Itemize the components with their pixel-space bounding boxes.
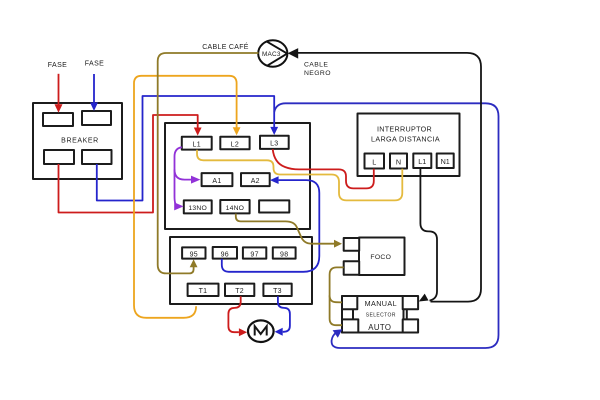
svg-text:14NO: 14NO bbox=[226, 205, 245, 212]
contactor aux contact (unlabeled) bbox=[259, 200, 289, 212]
svg-text:SELECTOR: SELECTOR bbox=[366, 313, 396, 319]
overload terminal T3 bbox=[263, 284, 291, 296]
svg-text:FOCO: FOCO bbox=[370, 254, 391, 261]
breaker terminal top-right bbox=[82, 111, 111, 125]
svg-text:L1: L1 bbox=[418, 157, 426, 166]
svg-text:BREAKER: BREAKER bbox=[61, 138, 99, 145]
svg-text:97: 97 bbox=[250, 251, 258, 258]
svg-text:CABLE: CABLE bbox=[304, 62, 328, 69]
wire red contactor L3 to interruptor L bbox=[273, 149, 374, 188]
wire cafe MAC3 to 95 bbox=[158, 53, 259, 273]
wire orange FASE line to L2 and T1 bbox=[134, 76, 237, 318]
overload terminal 96 bbox=[213, 247, 237, 259]
breaker terminal top-left bbox=[43, 113, 73, 126]
svg-text:MAC3: MAC3 bbox=[262, 51, 281, 58]
svg-text:T3: T3 bbox=[273, 288, 282, 295]
svg-text:N1: N1 bbox=[441, 157, 450, 166]
svg-text:NEGRO: NEGRO bbox=[304, 70, 331, 77]
selector contact link right bbox=[406, 309, 408, 320]
breaker terminal bottom-right bbox=[82, 150, 112, 164]
svg-text:T1: T1 bbox=[199, 288, 208, 295]
svg-text:L: L bbox=[372, 157, 376, 166]
svg-text:95: 95 bbox=[190, 251, 198, 258]
overload terminal T2 bbox=[225, 284, 254, 296]
wire red breaker to contactor L1 bbox=[59, 115, 198, 213]
wire cafe 14NO to FOCO bbox=[236, 214, 334, 244]
svg-text:98: 98 bbox=[280, 251, 288, 258]
interruptor terminal L1 bbox=[413, 154, 431, 169]
wire blue T3 to motor bbox=[278, 296, 290, 332]
svg-text:L1: L1 bbox=[193, 142, 201, 149]
svg-text:FASE: FASE bbox=[85, 61, 105, 68]
breaker BREAKER box bbox=[33, 103, 122, 179]
overload relay F1 box bbox=[170, 237, 312, 304]
wire yellow contactor L1 to interruptor N bbox=[197, 150, 402, 201]
contactor aux contact 13NO bbox=[184, 200, 212, 213]
FOCO terminal (bottom) bbox=[344, 261, 360, 274]
selector terminal top-left bbox=[342, 296, 357, 309]
wire black CABLE NEGRO to MAC3 and selector MANUAL bbox=[298, 53, 482, 302]
selector contact link left bbox=[352, 309, 354, 320]
contactor coil terminal A2 bbox=[241, 173, 270, 186]
wire red T2 to motor bbox=[228, 296, 240, 332]
selector terminal bottom-left bbox=[342, 319, 358, 332]
wire navy branch to AUTO terminal bbox=[274, 103, 498, 348]
selector terminal bottom-right bbox=[403, 319, 418, 332]
svg-text:A2: A2 bbox=[251, 178, 260, 185]
motor M1 bbox=[248, 320, 274, 342]
FOCO terminal (top) bbox=[344, 238, 360, 251]
FOCO lamp box bbox=[359, 238, 405, 276]
interruptor terminal L bbox=[365, 154, 385, 169]
wire cafe FOCO to selector terminals bbox=[330, 267, 344, 325]
pump MAC3 bbox=[258, 40, 287, 66]
svg-text:L2: L2 bbox=[231, 142, 239, 149]
contactor K1 box bbox=[165, 123, 310, 229]
contactor terminal L1 bbox=[182, 137, 212, 150]
selector MANUAL/AUTO box bbox=[342, 296, 404, 333]
wire blue breaker to contactor L3 bbox=[97, 96, 274, 201]
overload terminal T1 bbox=[188, 284, 219, 296]
wire purple L1 to A1 and 13NO bbox=[175, 147, 192, 206]
interruptor terminal N bbox=[390, 154, 407, 169]
contactor terminal L3 bbox=[260, 136, 289, 149]
wire black interruptor L1 to selector MANUAL terminal bbox=[420, 169, 437, 301]
contactor terminal L2 bbox=[220, 137, 249, 149]
interruptor terminal N1 bbox=[437, 154, 454, 169]
wire FASE blue drop into breaker bbox=[93, 74, 95, 103]
svg-text:MANUAL: MANUAL bbox=[365, 299, 397, 308]
overload terminal 98 bbox=[273, 247, 296, 258]
selector terminal top-right bbox=[403, 296, 418, 309]
wire blue 96 to A2 bbox=[222, 180, 319, 272]
wire FASE red drop into breaker bbox=[58, 74, 60, 105]
svg-text:96: 96 bbox=[221, 251, 229, 258]
svg-text:T2: T2 bbox=[235, 288, 244, 295]
overload terminal 97 bbox=[243, 247, 266, 258]
interruptor larga distancia box bbox=[358, 114, 460, 177]
svg-text:L3: L3 bbox=[270, 141, 278, 148]
contactor coil terminal A1 bbox=[202, 173, 233, 186]
svg-text:LARGA DISTANCIA: LARGA DISTANCIA bbox=[371, 134, 440, 143]
contactor aux contact 14NO bbox=[220, 200, 249, 213]
svg-text:A1: A1 bbox=[212, 178, 221, 185]
svg-text:INTERRUPTOR: INTERRUPTOR bbox=[377, 124, 432, 133]
breaker terminal bottom-left bbox=[44, 150, 74, 164]
svg-text:AUTO: AUTO bbox=[368, 323, 391, 332]
svg-text:N: N bbox=[396, 157, 401, 166]
svg-text:FASE: FASE bbox=[48, 62, 68, 69]
svg-text:13NO: 13NO bbox=[188, 205, 207, 212]
overload terminal 95 bbox=[182, 247, 205, 258]
svg-text:CABLE CAFÉ: CABLE CAFÉ bbox=[202, 42, 249, 51]
